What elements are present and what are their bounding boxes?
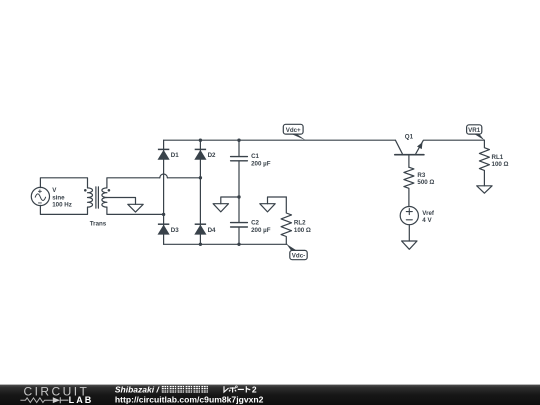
svg-text:C1: C1: [251, 153, 259, 160]
svg-text:Trans: Trans: [90, 221, 107, 228]
svg-text:Vref: Vref: [422, 210, 435, 217]
svg-text:100 Ω: 100 Ω: [492, 161, 509, 168]
svg-text:100 Ω: 100 Ω: [294, 227, 311, 234]
svg-text:LAB: LAB: [69, 395, 94, 405]
svg-text:100 Hz: 100 Hz: [52, 202, 72, 209]
svg-text:C2: C2: [251, 220, 259, 227]
svg-text:500 Ω: 500 Ω: [417, 179, 434, 186]
svg-text:D1: D1: [171, 152, 179, 159]
svg-text:D2: D2: [208, 152, 216, 159]
svg-text:D4: D4: [208, 227, 216, 234]
svg-text:RL2: RL2: [294, 220, 306, 227]
svg-text:http://circuitlab.com/c9um8k7j: http://circuitlab.com/c9um8k7jgvxn2: [115, 395, 264, 405]
svg-text:Vdc+: Vdc+: [286, 127, 301, 134]
svg-text:VR1: VR1: [468, 127, 481, 134]
svg-text:R3: R3: [417, 172, 425, 179]
svg-text:200 µF: 200 µF: [251, 160, 271, 167]
svg-text:Vdc-: Vdc-: [292, 253, 305, 260]
svg-text:D3: D3: [171, 227, 179, 234]
svg-text:4 V: 4 V: [422, 217, 432, 224]
svg-text:200 µF: 200 µF: [251, 227, 271, 234]
svg-text:2: 2: [252, 385, 257, 395]
svg-text:Shibazaki /: Shibazaki /: [115, 385, 161, 395]
svg-text:Q1: Q1: [405, 133, 414, 140]
svg-text:RL1: RL1: [492, 154, 504, 161]
